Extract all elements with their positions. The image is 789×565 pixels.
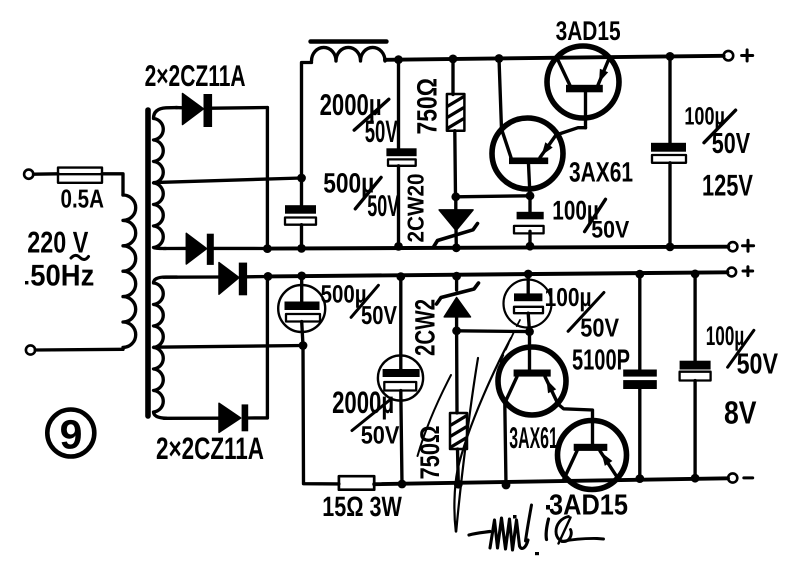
svg-text:3AX61: 3AX61: [569, 157, 633, 188]
node: rail/V1 collector: [495, 54, 504, 63]
diode D4: [164, 403, 267, 432]
svg-text:100µ: 100µ: [545, 282, 592, 312]
svg-text:50V: 50V: [591, 217, 629, 244]
node: V1 base node: [526, 191, 535, 200]
node: center tap junction top: [297, 174, 306, 183]
rail: top half lower rail: [267, 247, 728, 249]
diode D3: [164, 263, 269, 296]
wire feed vertical to inductor: [302, 63, 312, 179]
capacitor C3 100u/50V (V1 base): [514, 196, 544, 246]
scribble: main V stroke right branch: [456, 358, 478, 532]
input terminal top: [24, 170, 33, 179]
wire fuse to primary: [102, 174, 123, 195]
capacitor C5 2000u/50V bottom (circled): [378, 277, 423, 484]
scribble: dashes above: [498, 320, 520, 367]
capacitor C4 100u/50V right top: [651, 56, 686, 247]
node: C9 bottom: [691, 474, 700, 483]
capacitor C2 500u/50V top: [285, 178, 316, 248]
output terminal top plus: [724, 51, 734, 61]
rail: top rail: [385, 56, 724, 60]
node: rail/C8 top: [635, 270, 644, 279]
scribble: signature: [469, 532, 490, 536]
wire V1 collector: [499, 59, 502, 130]
resistor R1 750ohm top: [447, 59, 465, 197]
output terminal bottom minus: [728, 473, 737, 482]
slash (2000u bottom): [352, 399, 391, 431]
wire VD2 to V3 base: [457, 329, 530, 333]
node: rail/C5 bottom: [398, 480, 407, 489]
wire bottom terminal to primary: [35, 348, 123, 352]
svg-text:2CW20: 2CW20: [403, 174, 429, 243]
node: rail/R1 top: [449, 55, 458, 64]
transistor V1 3AX61 top: [492, 118, 586, 196]
node: R2 bottom rail: [454, 480, 463, 489]
svg-text:50V: 50V: [737, 349, 779, 381]
svg-text:500µ: 500µ: [321, 281, 367, 309]
scribble: main V stroke left branch: [454, 338, 511, 532]
input terminal bottom: [26, 345, 35, 354]
node: rail/C6 top: [297, 272, 306, 281]
svg-text:3AD15: 3AD15: [556, 16, 621, 46]
node: center tap junction bottom: [299, 341, 308, 350]
plus sign mid: [743, 240, 754, 251]
output terminal lower-mid plus: [727, 268, 736, 277]
node: C8 bottom: [635, 474, 644, 483]
transformer T1 core: [145, 110, 151, 416]
node: C4 bottom: [666, 243, 675, 252]
minus sign bottom: [744, 476, 753, 479]
resistor R2 750ohm bottom: [450, 331, 467, 484]
capacitor C1 2000u/50V top: [386, 60, 416, 247]
capacitor C6 500u/50V bottom (circled): [278, 276, 325, 346]
transistor V3 3AX61 bottom: [498, 332, 593, 485]
node: rail/C7 top: [524, 270, 533, 279]
svg-text:50Hz: 50Hz: [30, 260, 94, 293]
svg-text:100µ: 100µ: [706, 321, 744, 351]
plus sign top: [742, 50, 753, 61]
node: VD1 bottom rail: [452, 243, 461, 252]
node: rail/C9 top: [691, 270, 700, 279]
slash 2000u top: [354, 99, 389, 130]
capacitor C9 100u/50V right bottom: [680, 274, 711, 478]
zener VD2 2CW2: [437, 276, 479, 331]
tilde under V: [71, 255, 89, 259]
node: rail/VD2 top: [452, 272, 461, 281]
node: rail/C4 top: [666, 52, 675, 61]
svg-text:3AX61: 3AX61: [509, 422, 558, 455]
transformer T1 secondary lower winding: [154, 277, 178, 418]
inductor L1: [312, 47, 387, 61]
node: rectifier B junction: [264, 272, 273, 281]
slash (500u bottom): [351, 285, 378, 317]
diode D2: [164, 233, 266, 265]
slash 500u top: [355, 177, 381, 208]
wire D1 join vertical: [266, 108, 269, 249]
svg-text:2×2CZ11A: 2×2CZ11A: [156, 431, 264, 466]
wire center tap bottom vertical: [303, 346, 339, 484]
svg-text:50V: 50V: [367, 190, 399, 223]
svg-text:50V: 50V: [712, 128, 751, 160]
center tap wire lower: [154, 346, 303, 348]
rail: bottom half upper rail: [268, 272, 727, 276]
svg-text:220 V: 220 V: [27, 227, 88, 260]
scribble: long curve left flourish: [418, 375, 452, 456]
transistor V4 3AD15 bottom: [558, 421, 627, 490]
svg-text:50V: 50V: [580, 313, 619, 343]
slash (C7): [568, 293, 604, 332]
svg-text:50V: 50V: [361, 300, 398, 330]
plus sign lower-mid: [743, 267, 753, 276]
svg-text:0.5A: 0.5A: [61, 184, 105, 214]
svg-text:9: 9: [60, 412, 83, 458]
svg-text:8V: 8V: [724, 395, 757, 431]
node: rectifier A junction: [263, 244, 272, 253]
node: V3 collector rail: [502, 481, 511, 490]
slash (C4): [704, 110, 736, 143]
inductor L1 core bar: [311, 39, 387, 44]
capacitor C8 5100P: [623, 274, 657, 479]
node: C2 bottom: [297, 244, 306, 253]
svg-text:15Ω 3W: 15Ω 3W: [322, 491, 402, 522]
node: rail/C5 top: [396, 272, 405, 281]
node: C1 bottom: [394, 242, 403, 251]
slash (C9): [728, 330, 754, 367]
svg-text:125V: 125V: [702, 170, 753, 203]
center tap wire upper: [154, 178, 302, 183]
svg-text:50V: 50V: [365, 114, 398, 149]
wire D4 join vertical: [266, 276, 269, 418]
capacitor C7 100u/50V (V3 base, circled): [504, 274, 552, 332]
output terminal mid plus: [728, 242, 737, 251]
node: VD2 bottom junction: [452, 326, 461, 335]
transformer T1 primary winding: [123, 195, 136, 349]
figure number circle 9: [47, 410, 94, 457]
resistor R3 15ohm 3W: [339, 476, 374, 490]
slash (C3): [585, 199, 606, 231]
wire terminal to fuse: [34, 172, 59, 176]
node: rail/choke out: [394, 55, 403, 64]
svg-text:3AD15: 3AD15: [549, 490, 628, 522]
transformer T1 secondary upper winding: [154, 108, 178, 249]
rail: bottom rail: [374, 478, 728, 484]
svg-text:2×2CZ11A: 2×2CZ11A: [145, 60, 246, 93]
svg-text:2CW2: 2CW2: [410, 299, 441, 356]
wire zener node to V1 base: [456, 196, 530, 197]
fuse F1 0.5A: [58, 168, 102, 183]
svg-text:5100P: 5100P: [572, 345, 630, 377]
node: zener/R1 junction: [451, 192, 460, 201]
node: C3 bottom: [526, 242, 535, 251]
transistor V2 3AD15 top: [547, 46, 619, 128]
zener VD1 2CW20: [434, 197, 478, 248]
svg-text:50V: 50V: [361, 422, 400, 450]
svg-text:750Ω: 750Ω: [412, 78, 443, 135]
node: V3 base node: [525, 327, 534, 336]
diode D1: [176, 94, 267, 128]
